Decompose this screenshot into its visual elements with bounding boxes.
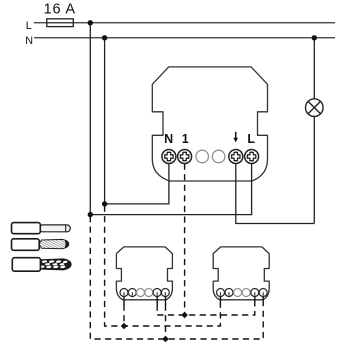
- junction dot L line: [88, 20, 93, 25]
- wire L vertical drop: [89, 23, 91, 215]
- unit S1 terminal tick 5: [156, 297, 158, 305]
- pin label output arrow: [233, 132, 238, 143]
- fuse F1 16 A: [47, 19, 74, 27]
- dashed wire unit A terminal L to L line: [165, 305, 167, 340]
- push-button unit S1 outline: [116, 247, 172, 300]
- junction diamond N line unit A: [121, 323, 128, 330]
- unit S2 terminal screw 1: [217, 289, 225, 297]
- junction dot L drop to terminal wire: [88, 212, 93, 217]
- svg-text:L: L: [26, 20, 32, 32]
- cable coarse stranded conductor: [12, 258, 71, 272]
- unit S1 terminal screw 6: [161, 289, 169, 297]
- terminal screw N: [162, 150, 176, 164]
- unit S1 terminal screw 1: [120, 289, 128, 297]
- unit S1 terminal tick 1: [123, 297, 125, 305]
- svg-text:N: N: [25, 35, 33, 47]
- junction diamond L line unit A: [162, 336, 169, 343]
- unit S1 opening 4: [145, 289, 153, 297]
- dashed wire L to extension units: [90, 216, 263, 339]
- junction diamond extension line 1: [181, 312, 188, 319]
- unit S2 terminal screw 6: [259, 289, 267, 297]
- junction dot N drop to terminal wire: [102, 201, 107, 206]
- terminal screw 1: [178, 150, 192, 164]
- dashed wire extension input 1: [184, 164, 186, 316]
- unit S2 terminal screw 5: [251, 289, 259, 297]
- dimmer insert U1 outline: [152, 67, 267, 181]
- svg-text:16 A: 16 A: [44, 1, 76, 17]
- terminal screw output: [229, 150, 243, 164]
- unit S2 opening 4: [242, 289, 250, 297]
- dashed wire extension line 1 between units: [157, 305, 255, 316]
- cable fine stranded conductor: [12, 239, 69, 251]
- wire L terminal to L drop: [90, 160, 251, 215]
- unit S2 opening 3: [234, 289, 242, 297]
- unit S1 opening 3: [137, 289, 145, 297]
- wire lamp drop from N: [313, 38, 315, 224]
- unit S2 terminal tick 1: [219, 297, 221, 305]
- unused terminal opening left: [196, 150, 209, 163]
- unit S2 terminal tick 6: [262, 297, 264, 305]
- dashed wire unit A terminal 1 to N line: [123, 305, 125, 327]
- svg-text:N: N: [164, 132, 173, 146]
- wire N line: [34, 37, 335, 39]
- svg-text:L: L: [247, 132, 255, 146]
- cable solid conductor: [12, 223, 71, 234]
- junction dot N line: [102, 35, 107, 40]
- unused terminal opening right: [212, 150, 225, 163]
- unit S2 terminal tick 5: [254, 297, 256, 305]
- wire N terminal to N drop: [105, 160, 169, 204]
- wire output terminal to lamp: [236, 160, 314, 224]
- unit S2 terminal screw 2: [225, 289, 233, 297]
- terminal screw L: [245, 150, 259, 164]
- junction dot N line at lamp: [312, 35, 317, 40]
- unit S1 terminal screw 5: [153, 289, 161, 297]
- wire L line: [34, 22, 335, 24]
- dashed wire N to extension units: [105, 206, 221, 327]
- svg-text:1: 1: [182, 132, 189, 146]
- unit S1 terminal screw 2: [128, 289, 136, 297]
- lamp E1: [306, 99, 324, 117]
- wire N vertical drop: [104, 38, 106, 204]
- push-button unit S2 outline: [213, 247, 269, 300]
- unit S1 terminal tick 6: [165, 297, 167, 305]
